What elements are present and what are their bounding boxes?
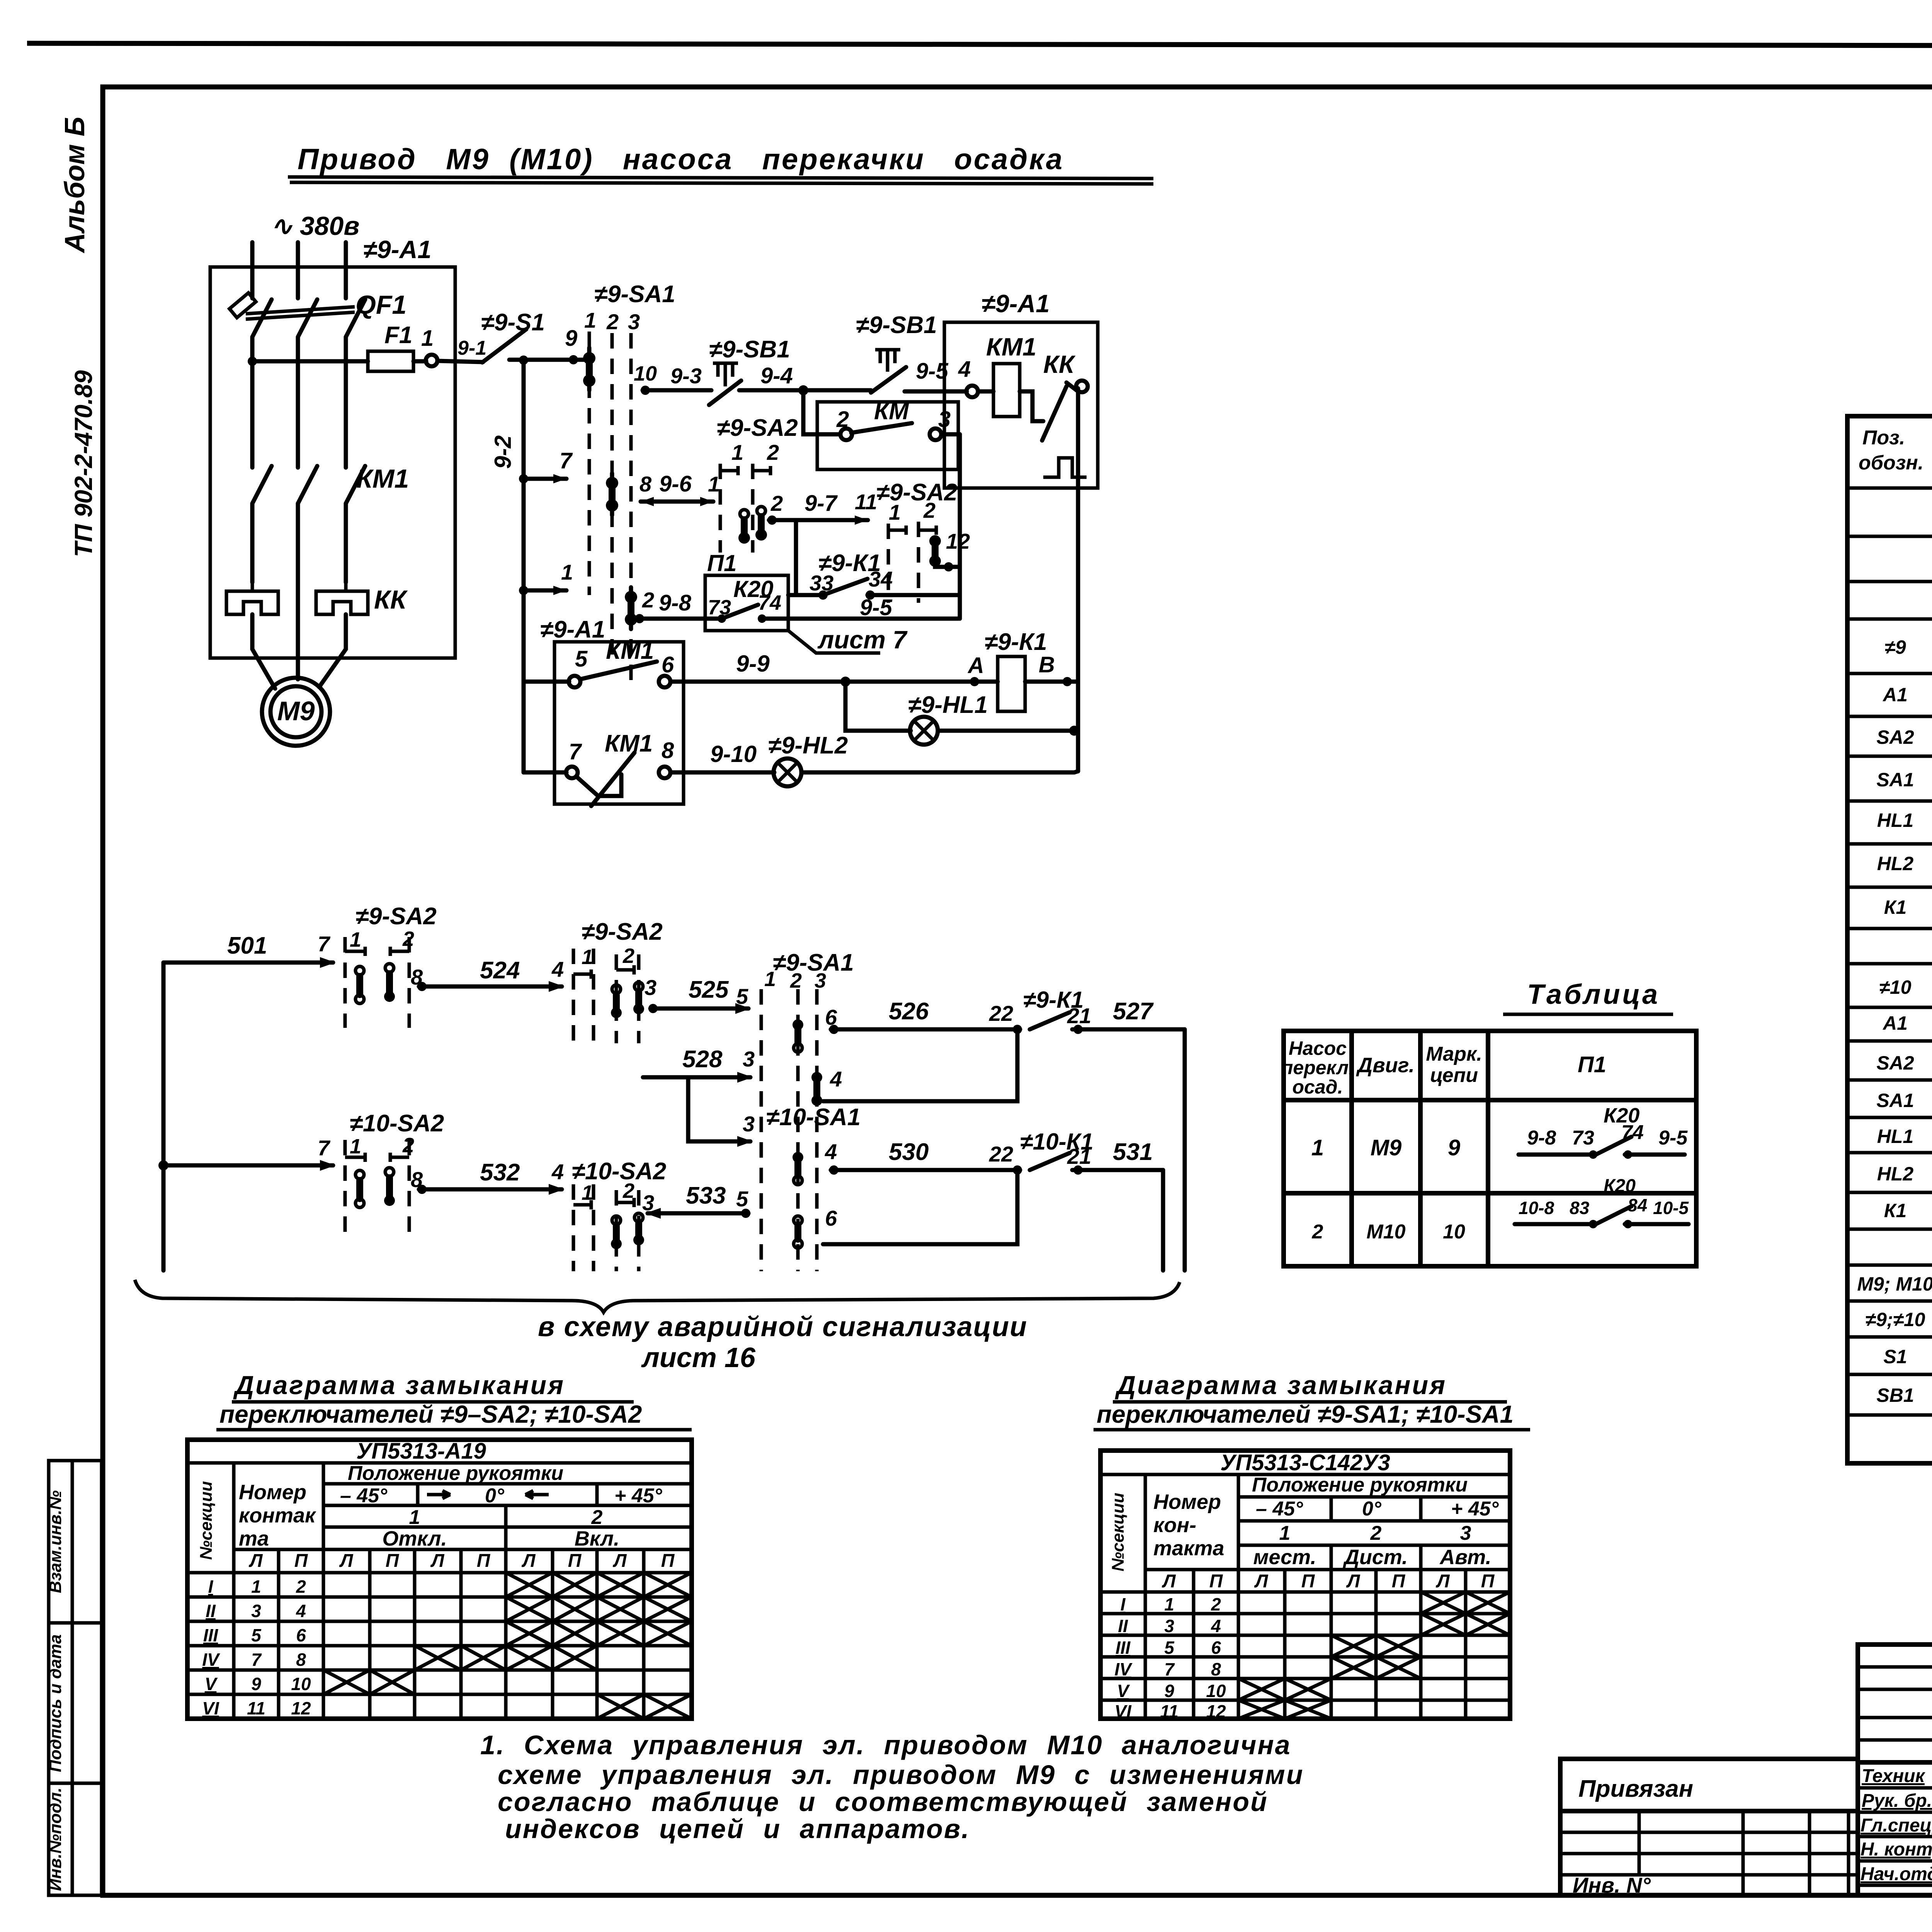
SA2a contact symbol 1 (738, 510, 750, 544)
diagram1 type row line (187, 1461, 692, 1465)
svg-text:V: V (205, 1674, 218, 1694)
svg-text:11: 11 (1160, 1701, 1179, 1721)
svg-text:+ 45°: + 45° (1451, 1498, 1499, 1520)
phase line L3 lower (344, 503, 348, 582)
breaker QF1 handle box (230, 293, 256, 318)
phase line L2 middle (296, 337, 300, 468)
svg-text:5: 5 (251, 1625, 262, 1645)
svg-text:Номер: Номер (239, 1481, 306, 1504)
vertical: П col (322, 1463, 325, 1719)
dot 526 right (1013, 1025, 1022, 1034)
svg-text:3: 3 (1164, 1616, 1174, 1636)
breaker QF1 tie bar (246, 307, 355, 319)
tb name rows (1858, 1788, 1932, 1885)
svg-text:12: 12 (946, 529, 970, 553)
wire 528 (643, 1075, 750, 1080)
K1 blade (row 530) (1030, 1153, 1070, 1170)
svg-text:2: 2 (1312, 1221, 1323, 1243)
switch SA1 dashed column 1 (588, 332, 591, 595)
arrow wire 1 (553, 586, 566, 595)
svg-text:6: 6 (296, 1625, 306, 1645)
svg-text:КМ1: КМ1 (986, 333, 1036, 361)
line under degrees (323, 1504, 692, 1507)
wire 7 (to SA2) (524, 477, 566, 481)
svg-text:7: 7 (318, 1136, 331, 1160)
wire terminal1 to S1 (437, 361, 483, 362)
contactor KM1 blade 3 (346, 466, 365, 503)
SA1c contact (4 upper) (811, 1072, 822, 1106)
dot HL1 riser (1069, 726, 1079, 736)
svg-text:HL2: HL2 (1877, 1163, 1914, 1185)
svg-text:Откл.: Откл. (382, 1527, 447, 1550)
ЛП header row (249, 1551, 675, 1571)
panel box ≠9-A1 (contactor coil) (944, 322, 1098, 488)
svg-text:Нач.отд.: Нач.отд. (1861, 1864, 1932, 1884)
wire to contact 5 (524, 680, 569, 684)
right riser 527 (1183, 1029, 1187, 1270)
contactor KM1 blade 1 (252, 466, 272, 503)
svg-text:10-5: 10-5 (1653, 1198, 1689, 1218)
title underline 1 (288, 177, 1153, 179)
junction dot bypass (798, 385, 808, 395)
svg-text:А1: А1 (1882, 1012, 1908, 1034)
SA2a dashed column 2 (751, 464, 755, 553)
svg-text:Л: Л (1254, 1571, 1269, 1592)
arrow 525 right (735, 1003, 751, 1014)
svg-text:5: 5 (736, 984, 748, 1009)
svg-text:Л: Л (1436, 1571, 1450, 1592)
svg-text:индексов цепей и аппара: индексов цепей и аппаратов. (505, 1814, 970, 1844)
svg-text:Техник: Техник (1862, 1766, 1926, 1786)
arrow 533 left (645, 1208, 661, 1219)
svg-text:≠9-SB1: ≠9-SB1 (856, 312, 937, 338)
privyazan row line (1560, 1809, 1859, 1813)
svg-text:IV: IV (202, 1650, 220, 1670)
type row line (1100, 1473, 1510, 1476)
svg-text:10: 10 (1443, 1221, 1465, 1243)
svg-text:лист 16: лист 16 (641, 1342, 756, 1373)
junction dot HL1 branch (840, 677, 850, 687)
vertical: секции col (232, 1463, 236, 1719)
svg-text:9-4: 9-4 (760, 363, 793, 388)
svg-text:III: III (1116, 1638, 1131, 1658)
phase line L2 lower (296, 503, 300, 679)
svg-text:9: 9 (1164, 1681, 1174, 1701)
dot 530 left (829, 1165, 838, 1175)
svg-text:I: I (1121, 1594, 1126, 1614)
svg-text:9-5: 9-5 (860, 595, 893, 620)
SA2e pin tick 1 (345, 1153, 365, 1162)
svg-text:Номер: Номер (1153, 1490, 1221, 1514)
KM aux contact left terminal (840, 429, 852, 440)
svg-text:Марк.: Марк. (1426, 1043, 1482, 1065)
svg-text:HL1: HL1 (1877, 1126, 1913, 1147)
main title block outline (1858, 1645, 1932, 1895)
svg-text:0°: 0° (485, 1485, 505, 1507)
SA1c contact (6 lower) (794, 1216, 802, 1248)
svg-text:HL1: HL1 (1877, 810, 1913, 831)
degrees cell divider 1 (416, 1484, 420, 1505)
svg-text:Двиг.: Двиг. (1356, 1054, 1415, 1077)
SA2e dashed column 1 (344, 1140, 347, 1233)
svg-text:524: 524 (480, 957, 520, 984)
svg-text:QF1: QF1 (355, 290, 406, 320)
svg-text:обозн.: обозн. (1859, 452, 1923, 474)
svg-text:83: 83 (1570, 1198, 1590, 1218)
wire 527 (1072, 1027, 1185, 1032)
riser 9-2 vertical (522, 361, 526, 772)
SA2f dashed column 3 (615, 1190, 618, 1271)
svg-text:10: 10 (634, 362, 657, 385)
column line 2 (1418, 1031, 1423, 1266)
svg-text:Л: Л (249, 1551, 263, 1571)
svg-text:1: 1 (1164, 1594, 1174, 1614)
svg-text:П: П (1209, 1571, 1223, 1592)
SA2d dashed column 4 (637, 954, 641, 1043)
svg-text:Взам.инв.№: Взам.инв.№ (46, 1490, 65, 1593)
stop button ≠9-SB1 (709, 336, 790, 405)
data row lines2 (1100, 1590, 1510, 1594)
SA2f dashed column 4 (637, 1190, 641, 1271)
svg-text:Альбом Б: Альбом Б (60, 117, 90, 253)
svg-text:9-6: 9-6 (659, 471, 692, 497)
svg-text:2: 2 (790, 969, 802, 992)
X marks row V (323, 1670, 415, 1694)
svg-text:3: 3 (628, 310, 640, 334)
parts table outer box (1847, 416, 1932, 1463)
SA2b dashed column 1 (887, 524, 890, 603)
privyazan grid row 2 (1560, 1831, 1859, 1834)
wire 1 (to SA2) (524, 588, 566, 593)
vertical: П col (1237, 1475, 1240, 1719)
contact 6 terminal (659, 676, 670, 687)
vertical: Л col (277, 1549, 281, 1719)
wire bypass down (803, 390, 840, 434)
start button ≠9-SB1 (856, 312, 937, 393)
svg-text:9: 9 (1448, 1135, 1460, 1160)
SA2f contact 2 (633, 1213, 644, 1245)
motor M9 outer circle (262, 678, 330, 746)
svg-text:9-8: 9-8 (1527, 1127, 1556, 1149)
svg-text:ТП 902-2-470.89: ТП 902-2-470.89 (70, 370, 97, 557)
svg-text:П: П (568, 1551, 582, 1571)
wire HL1 to riser (938, 729, 1074, 733)
wire coil K1 right (1025, 680, 1078, 684)
wire 34 to riser (867, 593, 960, 597)
dot 33 (818, 590, 828, 600)
svg-text:III: III (203, 1625, 219, 1645)
svg-text:≠10-SA2: ≠10-SA2 (572, 1158, 666, 1185)
wire coil to KK contact (1020, 391, 1043, 421)
svg-text:1: 1 (350, 1135, 361, 1158)
svg-text:≠9-SA2: ≠9-SA2 (582, 918, 663, 945)
switch SA1 dashed column 3 (629, 333, 633, 680)
SA2e pin tick 2 (390, 1153, 409, 1162)
left bus vertical (162, 963, 166, 1270)
svg-text:№секции: №секции (197, 1481, 216, 1560)
privyazan grid col 4 (1847, 1811, 1850, 1895)
svg-text:F1: F1 (384, 322, 412, 349)
row lines (1847, 488, 1932, 1415)
svg-text:№секции: №секции (1109, 1493, 1128, 1571)
title underline (1503, 1013, 1673, 1016)
svg-text:Авт.: Авт. (1439, 1546, 1491, 1569)
wire S1 to SA1 node 9 (509, 358, 589, 362)
svg-text:переключателей ≠9–SA2; ≠10-SA2: переключателей ≠9–SA2; ≠10-SA2 (219, 1400, 642, 1428)
fuse F1 body (368, 351, 413, 371)
svg-text:Дист.: Дист. (1343, 1546, 1408, 1569)
X marks row VI (597, 1694, 692, 1719)
svg-text:≠10-SA1: ≠10-SA1 (766, 1104, 861, 1131)
svg-text:М9: М9 (1371, 1135, 1402, 1160)
svg-text:II: II (206, 1601, 216, 1621)
svg-text:10: 10 (1206, 1681, 1226, 1701)
svg-text:М9; М10: М9; М10 (1857, 1273, 1932, 1295)
column line 1 (1349, 1031, 1354, 1266)
privyazan grid row 4 (1560, 1873, 1859, 1877)
wire from L1 to fuse (252, 359, 368, 364)
lamp ≠9-HL2 (774, 759, 801, 786)
vertical: Л col (1192, 1570, 1196, 1719)
svg-text:К1: К1 (1884, 1200, 1907, 1221)
svg-text:532: 532 (480, 1159, 520, 1186)
svg-text:34: 34 (869, 567, 893, 591)
motor feeder 1 (252, 614, 275, 689)
svg-text:SA1: SA1 (1876, 1090, 1914, 1111)
wire HL2 to right riser (801, 770, 1074, 775)
svg-text:SB1: SB1 (1876, 1384, 1914, 1406)
row labels romans 2 (1114, 1594, 1133, 1721)
X marks row VI (мест) (1238, 1700, 1331, 1719)
row1 K20 mini-contact (1519, 1104, 1688, 1159)
vertical: секции col (1144, 1475, 1147, 1719)
svg-text:УП5313-А19: УП5313-А19 (356, 1439, 486, 1464)
svg-text:Положение рукоятки: Положение рукоятки (1252, 1474, 1468, 1496)
svg-text:9-5: 9-5 (1658, 1127, 1688, 1149)
SA2b pin tick 2 (918, 526, 936, 535)
svg-text:II: II (1118, 1616, 1128, 1636)
svg-text:73: 73 (1572, 1127, 1594, 1149)
contact 7 terminal (566, 767, 578, 778)
svg-text:9: 9 (251, 1674, 261, 1694)
svg-text:осад.: осад. (1293, 1076, 1343, 1098)
svg-text:1: 1 (1279, 1522, 1291, 1544)
svg-text:схеме управления эл. прив: схеме управления эл. приводом М9 с измен… (498, 1760, 1304, 1790)
junction dot L1/fuse (248, 357, 257, 366)
svg-text:Насос: Насос (1289, 1037, 1347, 1059)
table outer box (1284, 1031, 1696, 1266)
svg-text:П1: П1 (1578, 1052, 1606, 1077)
svg-text:525: 525 (689, 976, 729, 1003)
svg-text:КМ1: КМ1 (605, 730, 653, 757)
wire 531 (1072, 1168, 1163, 1172)
svg-text:≠9-HL2: ≠9-HL2 (768, 732, 848, 759)
wire 532 (419, 1187, 562, 1192)
svg-text:1: 1 (421, 326, 434, 351)
svg-text:2: 2 (606, 310, 619, 334)
svg-text:12: 12 (291, 1698, 311, 1718)
svg-text:2: 2 (923, 498, 935, 522)
svg-text:6: 6 (662, 652, 674, 677)
svg-text:Н. контр: Н. контр (1861, 1839, 1932, 1860)
svg-text:кон-: кон- (1153, 1514, 1196, 1537)
svg-text:22: 22 (989, 1001, 1013, 1026)
svg-text:5: 5 (575, 646, 588, 672)
SA2b dashed column 2 (917, 522, 920, 603)
wire 524 (419, 985, 562, 989)
left margin column box (49, 1461, 102, 1895)
dot 531 (1073, 1165, 1083, 1175)
svg-text:∿ 380в: ∿ 380в (270, 211, 359, 241)
privyazan grid col 2 (1742, 1811, 1745, 1895)
svg-text:1: 1 (889, 500, 901, 524)
svg-text:К1: К1 (1884, 896, 1907, 918)
svg-text:3: 3 (645, 975, 656, 1000)
terminal 4 circle (966, 386, 978, 397)
svg-text:1: 1 (251, 1577, 261, 1597)
breaker QF1 blade 1 (252, 299, 272, 337)
phase line L3 middle (344, 337, 348, 468)
SA1c dashed column 1 (760, 989, 763, 1271)
dot 12/riser (944, 562, 953, 571)
SA1c contact (6) (793, 1019, 803, 1052)
heading underline 1 (232, 1400, 634, 1404)
svg-text:переключателей ≠9-SA1; ≠10-SA1: переключателей ≠9-SA1; ≠10-SA1 (1097, 1400, 1514, 1428)
wire 9-6 (641, 500, 713, 504)
svg-text:1: 1 (731, 440, 743, 464)
contact 5 terminal (569, 676, 580, 687)
arrow 9-7 (855, 515, 868, 525)
svg-text:526: 526 (889, 998, 929, 1025)
SA2e contact 2 (384, 1168, 395, 1206)
SA2a pin tick 1 (720, 466, 738, 475)
junction dot 9-2 riser (519, 355, 528, 365)
wire fuse to terminal (413, 359, 426, 364)
svg-text:Л: Л (430, 1551, 445, 1571)
svg-text:Гл.спец.: Гл.спец. (1861, 1815, 1932, 1836)
arrow 7 lower (320, 1160, 335, 1171)
svg-text:527: 527 (1113, 998, 1154, 1025)
svg-text:≠9-SA1: ≠9-SA1 (594, 281, 675, 308)
wire 526 (831, 1027, 1020, 1032)
wire 9-7 branch down (794, 520, 798, 595)
svg-text:Л: Л (339, 1551, 354, 1571)
role labels (1861, 1766, 1932, 1884)
SA1 contact bar on column 1 (node 9) (583, 348, 595, 390)
svg-text:П1: П1 (707, 550, 737, 576)
svg-text:7: 7 (251, 1650, 262, 1670)
svg-text:Инв. N°: Инв. N° (1573, 1873, 1651, 1897)
arrow wire 7 (553, 474, 566, 483)
svg-text:11: 11 (855, 490, 877, 514)
svg-text:4: 4 (551, 957, 564, 981)
svg-text:7: 7 (560, 448, 573, 473)
wire 9-3 (643, 388, 711, 393)
svg-text:в схему аварийной сигнализа: в схему аварийной сигнализации (538, 1311, 1027, 1342)
svg-text:9-7: 9-7 (804, 491, 838, 516)
SA2f dashed column 1 (572, 1184, 575, 1271)
left margin divider line 2 (49, 1782, 102, 1785)
svg-text:6: 6 (1211, 1638, 1221, 1658)
svg-text:4: 4 (825, 1139, 837, 1164)
right riser 531 (1161, 1170, 1165, 1270)
junction dot lower branch (158, 1160, 168, 1170)
svg-text:7: 7 (318, 932, 331, 956)
svg-text:≠10: ≠10 (1879, 976, 1911, 998)
relay box P1 (705, 575, 788, 631)
X marks row IV (дист) (1331, 1657, 1421, 1679)
svg-text:контак: контак (239, 1504, 316, 1527)
breaker QF1 blade 3 (346, 299, 365, 337)
svg-text:9-2: 9-2 (490, 435, 516, 469)
svg-text:≠9-SA2: ≠9-SA2 (355, 903, 437, 930)
panel box ≠9-A1 (power section) (210, 267, 455, 658)
degrees cell divider 2 (595, 1484, 599, 1505)
svg-text:74: 74 (758, 591, 781, 614)
svg-text:21: 21 (1067, 1003, 1091, 1028)
SA2b contact symbol 12 (929, 535, 941, 567)
motor feeder 3 (319, 614, 346, 687)
svg-text:≠9-HL1: ≠9-HL1 (908, 692, 988, 718)
SA2c pin tick 1 (345, 947, 365, 956)
dot 9-7 (767, 515, 777, 525)
dot 525 left (648, 1004, 658, 1013)
svg-text:11: 11 (247, 1698, 265, 1718)
sheet outer top border line (27, 43, 1932, 46)
svg-text:≠9-А1: ≠9-А1 (363, 235, 432, 264)
svg-text:– 45°: – 45° (340, 1485, 388, 1507)
SA2c pin tick 2 (390, 947, 409, 956)
SA1c contact (4 lower) (793, 1152, 803, 1185)
riser bottom corner (1074, 771, 1078, 772)
svg-text:П: П (1392, 1571, 1406, 1592)
small col dividers (368, 1549, 372, 1719)
X marks row IV (415, 1646, 597, 1670)
svg-text:531: 531 (1113, 1139, 1153, 1165)
wire to contact 7 (524, 770, 566, 775)
svg-text:VI: VI (202, 1698, 219, 1718)
phase line L1 lower (250, 503, 255, 582)
KM1 5-6 blade (580, 662, 657, 679)
svg-text:≠9-SA1: ≠9-SA1 (773, 949, 854, 976)
svg-text:9-8: 9-8 (659, 590, 692, 616)
SA2d contact 2 (633, 982, 644, 1014)
contactor self-hold box KM (817, 402, 958, 469)
svg-text:533: 533 (686, 1182, 726, 1209)
heading2 underline 2 (1094, 1428, 1530, 1432)
svg-text:КМ1: КМ1 (356, 464, 409, 493)
svg-text:М10: М10 (1366, 1221, 1405, 1243)
svg-text:та: та (239, 1527, 269, 1550)
junction dot before node 9 (569, 355, 578, 364)
SA2c dashed column 1 (344, 937, 347, 1028)
arrow 528 lower (737, 1136, 753, 1147)
svg-text:9-10: 9-10 (710, 741, 757, 767)
left margin inner vertical (71, 1461, 74, 1895)
SA2f contact 1 (611, 1216, 622, 1249)
junction dot wire1 (519, 586, 528, 595)
SA2e dashed column 2 (408, 1140, 411, 1233)
svg-text:≠9-SB1: ≠9-SB1 (709, 336, 790, 363)
svg-text:Рук. бр.: Рук. бр. (1862, 1791, 1932, 1811)
svg-text:5: 5 (1164, 1638, 1175, 1658)
SA2a contact symbol 2 (755, 507, 767, 541)
X marks row II (авт) (1421, 1614, 1510, 1635)
thermal relay KK heater 1 (226, 582, 278, 614)
svg-text:9: 9 (565, 326, 577, 351)
svg-text:такта: такта (1153, 1537, 1224, 1560)
dot 527 (1073, 1025, 1083, 1034)
